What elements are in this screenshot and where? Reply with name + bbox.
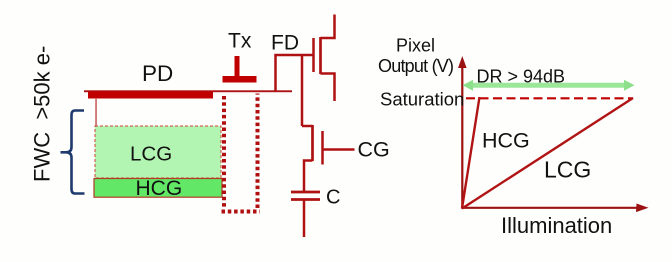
svg-text:CG: CG [358,137,390,161]
svg-text:HCG: HCG [136,177,183,200]
svg-text:Saturation: Saturation [380,88,464,109]
LCG response line [462,98,633,209]
svg-text:Tx: Tx [228,30,252,53]
wire PD left vertical [95,98,97,127]
svg-text:LCG: LCG [544,156,591,182]
transfer gate Tx [235,56,240,77]
LCG well box [95,126,221,178]
x-axis [462,207,640,209]
svg-text:DR > 94dB: DR > 94dB [477,67,566,87]
wire FD node [276,55,314,91]
HCG well box [94,179,222,198]
brace (blue) [61,111,85,194]
svg-text:Pixel: Pixel [396,36,435,56]
svg-text:FWC >50k e-: FWC >50k e- [30,46,55,182]
capacitor C [291,191,320,194]
photodiode PD bar [88,92,213,99]
y-axis [461,64,463,209]
saturation dashed line [466,97,633,99]
svg-text:HCG: HCG [482,129,530,153]
svg-text:LCG: LCG [130,143,172,166]
HCG response line [462,97,480,209]
wire diffusion surface line [84,90,292,92]
svg-text:FD: FD [271,32,299,55]
svg-text:C: C [326,187,340,209]
svg-text:Output (V): Output (V) [378,56,454,76]
dotted channel region [222,96,226,208]
DR double arrow (green) [472,83,626,88]
svg-text:PD: PD [142,61,173,86]
transistor SF (source follower) [312,38,315,72]
transistor CG switch [302,125,313,128]
svg-text:Illumination: Illumination [501,213,612,238]
